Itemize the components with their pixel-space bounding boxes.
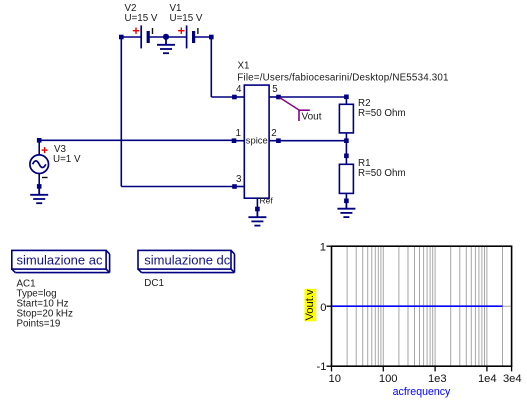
op-amp subcircuit X1 body (244, 85, 269, 198)
junction square R1 bottom (344, 199, 349, 204)
junction square R2 top (344, 95, 349, 100)
battery V2 (133, 25, 153, 48)
resistor R1 (339, 156, 353, 201)
svg-text:Points=19: Points=19 (17, 319, 61, 330)
svg-text:10: 10 (328, 373, 340, 385)
label V3 (53, 144, 81, 165)
wire pin2 to R junction (278, 140, 346, 142)
svg-text:simulazione ac: simulazione ac (17, 253, 103, 268)
wire pin3 row horizontal (121, 186, 234, 188)
svg-text:100: 100 (379, 373, 398, 385)
y axis label Vout.v (304, 289, 316, 322)
svg-text:Vout: Vout (302, 111, 322, 122)
junction square pin3 (232, 184, 237, 189)
junction square pin4 (232, 95, 237, 100)
junction square V3 top (37, 138, 42, 143)
junction square right battery node (209, 35, 214, 40)
svg-text:1e3: 1e3 (428, 373, 447, 385)
svg-text:3: 3 (236, 174, 242, 185)
svg-text:X1: X1 (238, 61, 250, 72)
label R1 (358, 158, 406, 179)
svg-text:DC1: DC1 (144, 278, 164, 289)
wire V1 node down (210, 37, 212, 97)
wire batteries row (121, 36, 211, 38)
ground (between batteries) (157, 37, 175, 53)
resistor R2 (339, 97, 353, 141)
trace Vout.v (332, 305, 503, 307)
AC1 properties text (17, 279, 73, 330)
svg-text:5: 5 (272, 84, 278, 95)
pin 5 stub (269, 96, 278, 98)
battery V1 (178, 25, 198, 48)
axis ticks (327, 246, 512, 371)
svg-text:1e4: 1e4 (478, 373, 497, 385)
svg-text:R=50 Ohm: R=50 Ohm (358, 168, 406, 179)
junction square pin2 (276, 138, 281, 143)
label R2 (358, 98, 406, 119)
svg-text:1: 1 (236, 128, 241, 139)
pin 3 stub (235, 186, 245, 188)
svg-text:spice: spice (246, 135, 268, 146)
simulation box DC1 (138, 250, 235, 272)
pin 4 stub (234, 96, 244, 98)
wire V3 to pin1 (39, 139, 234, 141)
svg-text:-1: -1 (317, 361, 327, 373)
junction square V3 bottom (37, 184, 42, 189)
svg-text:U=1 V: U=1 V (53, 154, 81, 165)
diagram frame (332, 246, 512, 366)
svg-text:U=15 V: U=15 V (170, 13, 203, 24)
junction square R2 bottom / pin2 node (344, 138, 349, 143)
wire R2 to R1 (345, 141, 347, 156)
svg-text:2: 2 (271, 128, 276, 139)
junction square pin1 (232, 138, 237, 143)
pin 1 stub (234, 140, 244, 142)
svg-text:3e4: 3e4 (503, 373, 522, 385)
node dot between batteries (163, 34, 169, 40)
ground R1 (337, 201, 355, 217)
y axis labels (317, 242, 327, 374)
source V3 (30, 140, 49, 186)
label X1 (237, 61, 448, 84)
node Vout label (280, 98, 322, 123)
svg-text:4: 4 (236, 84, 242, 95)
label V1 (170, 3, 203, 24)
junction square pin5 (276, 95, 281, 100)
wire pin5 to R2 (279, 96, 347, 98)
ground Ref (248, 209, 266, 226)
svg-text:1: 1 (320, 242, 326, 254)
svg-text:0: 0 (320, 302, 326, 314)
svg-text:U=15 V: U=15 V (125, 13, 158, 24)
wire to pin4 (211, 96, 234, 98)
ground V3 (30, 186, 48, 203)
svg-text:R=50 Ohm: R=50 Ohm (358, 108, 406, 119)
junction square Ref (255, 207, 260, 212)
wire V2 node down to pin3 row (120, 37, 122, 187)
pin Ref stub (256, 198, 258, 209)
diagram grid lines (332, 246, 512, 366)
pin 2 stub (269, 140, 278, 142)
svg-text:File=/Users/fabiocesarini/Desk: File=/Users/fabiocesarini/Desktop/NE5534… (237, 73, 448, 84)
simulation box AC1 (12, 250, 110, 272)
svg-text:acfrequency: acfrequency (393, 386, 451, 398)
label V2 (125, 3, 158, 24)
junction square R1 top (344, 154, 349, 159)
svg-text:Ref: Ref (260, 196, 274, 206)
junction square left battery node (119, 35, 124, 40)
svg-text:simulazione dc: simulazione dc (144, 253, 230, 268)
svg-text:Vout.v: Vout.v (304, 289, 316, 321)
x axis labels (328, 373, 521, 385)
